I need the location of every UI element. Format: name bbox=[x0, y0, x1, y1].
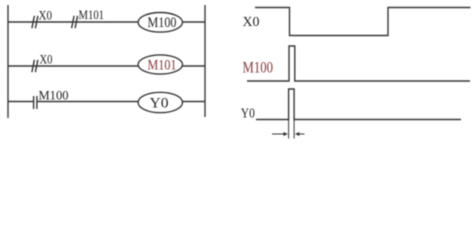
svg-text:M100: M100 bbox=[39, 88, 69, 103]
svg-text:X0: X0 bbox=[39, 8, 53, 23]
svg-text:X0: X0 bbox=[40, 52, 53, 67]
svg-text:M101: M101 bbox=[79, 7, 105, 22]
svg-text:M101: M101 bbox=[148, 57, 177, 73]
svg-text:X0: X0 bbox=[243, 15, 260, 30]
svg-text:Y0: Y0 bbox=[241, 107, 255, 122]
svg-text:M100: M100 bbox=[148, 15, 177, 31]
svg-text:M100: M100 bbox=[243, 60, 274, 77]
svg-text:Y0: Y0 bbox=[150, 95, 169, 111]
